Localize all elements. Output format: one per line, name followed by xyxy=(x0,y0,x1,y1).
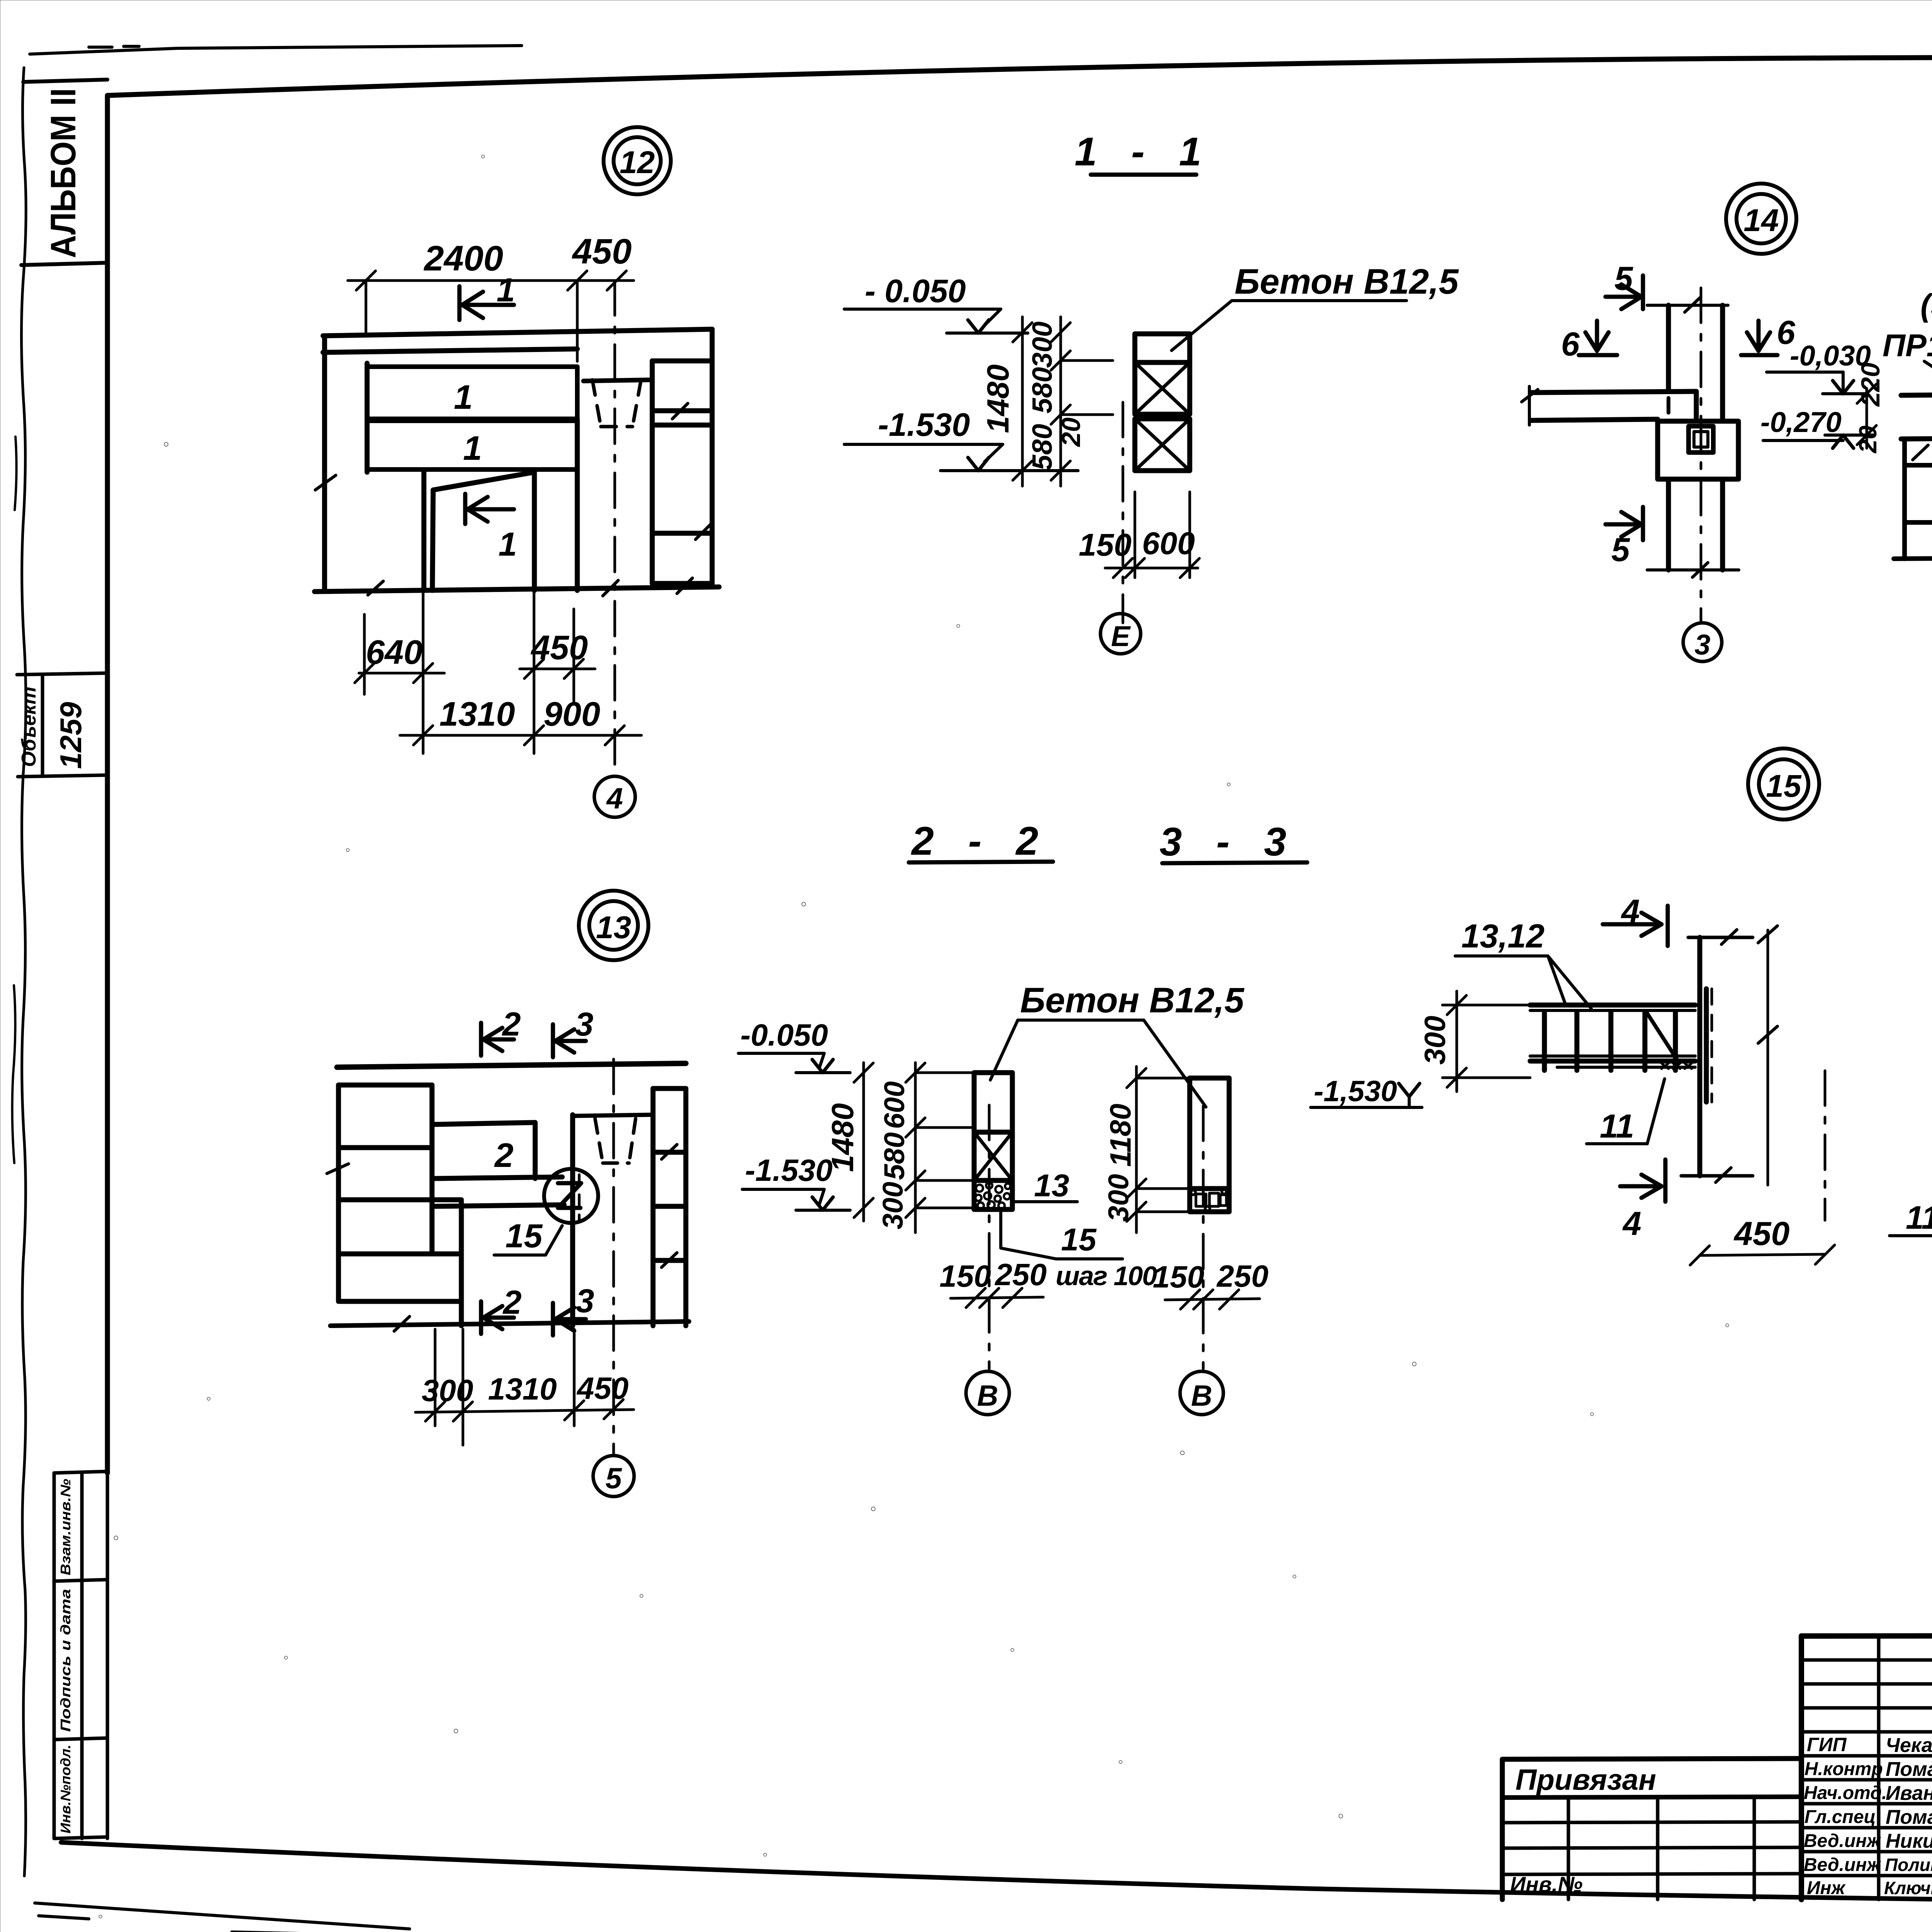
axis circle 5 xyxy=(593,1456,634,1497)
sec55 floor slab xyxy=(1901,393,1932,439)
svg-text:-1.530: -1.530 xyxy=(878,406,970,443)
axis line E xyxy=(1122,402,1124,623)
section arrow 3 bottom xyxy=(553,1282,594,1335)
svg-text:11: 11 xyxy=(1906,1199,1932,1236)
dimension 1180 300 sec33 xyxy=(1102,1066,1190,1233)
svg-text:Е: Е xyxy=(1111,620,1131,652)
node13 left blocks xyxy=(338,1085,461,1326)
svg-text:Помазов: Помазов xyxy=(1886,1758,1932,1781)
node13 right blocks xyxy=(653,1088,686,1326)
svg-text:580: 580 xyxy=(878,1132,910,1180)
level mark -1.530 sec11 xyxy=(844,406,1078,471)
svg-text:Бетон В12,5: Бетон В12,5 xyxy=(1020,981,1245,1020)
concrete label sec11 xyxy=(1172,262,1459,350)
svg-text:-1.530: -1.530 xyxy=(745,1153,833,1187)
svg-text:13: 13 xyxy=(596,910,631,945)
axis circle B2 xyxy=(1180,1371,1223,1415)
svg-text:шаг 100: шаг 100 xyxy=(1056,1261,1157,1291)
section arrow 5 top xyxy=(1605,260,1643,309)
album box top line xyxy=(23,80,107,82)
svg-text:В: В xyxy=(977,1379,998,1412)
svg-text:450: 450 xyxy=(1733,1215,1790,1252)
axis circle 3 node14 xyxy=(1683,623,1722,662)
svg-text:12: 12 xyxy=(619,145,655,180)
label PR1 sec55 xyxy=(1883,328,1932,404)
svg-text:1: 1 xyxy=(498,526,517,563)
frame bottom line xyxy=(61,1842,1932,1905)
svg-text:1180: 1180 xyxy=(1104,1104,1137,1167)
section arrow 5 bottom xyxy=(1605,507,1643,568)
dimension 150 250 sec22 xyxy=(939,1257,1046,1308)
svg-text:В: В xyxy=(1191,1379,1213,1412)
axis line node14 xyxy=(1700,288,1702,623)
svg-text:600: 600 xyxy=(1142,526,1195,561)
svg-text:Нач.отд.: Нач.отд. xyxy=(1804,1783,1887,1803)
svg-text:-0,270: -0,270 xyxy=(1760,406,1842,438)
svg-text:1480: 1480 xyxy=(981,364,1015,433)
svg-text:580: 580 xyxy=(1027,367,1058,413)
socket top line xyxy=(583,380,652,381)
section arrow 2 top xyxy=(481,1006,521,1056)
axis line E4 xyxy=(614,281,616,776)
level mark -0.050 sec11 xyxy=(844,273,1028,333)
node13 bottom line xyxy=(330,1321,689,1326)
svg-text:250: 250 xyxy=(1216,1259,1268,1293)
svg-text:4: 4 xyxy=(1622,1205,1641,1242)
svg-text:300: 300 xyxy=(877,1182,909,1229)
svg-text:3: 3 xyxy=(575,1006,594,1043)
axis line node15 xyxy=(1824,1071,1827,1220)
axis circle B1 xyxy=(966,1371,1009,1415)
dimension 640 xyxy=(355,590,444,753)
label 11 sec44 xyxy=(1889,1108,1932,1236)
svg-text:11: 11 xyxy=(1600,1108,1634,1145)
section title 2-2 xyxy=(909,819,1053,864)
dimension 1310 900 xyxy=(400,695,641,745)
node14 beam from left xyxy=(1531,391,1696,420)
rubble hatch sec33 xyxy=(1191,1189,1226,1211)
svg-text:1259: 1259 xyxy=(54,702,88,769)
svg-text:Инж: Инж xyxy=(1807,1878,1846,1898)
dimension 300 1310 450 xyxy=(415,1371,634,1421)
node15 plate on wall xyxy=(1706,989,1712,1102)
svg-text:Объект: Объект xyxy=(18,687,40,767)
cage diagonal xyxy=(1646,1012,1677,1060)
svg-text:1310: 1310 xyxy=(488,1372,557,1406)
svg-text:220: 220 xyxy=(1856,362,1885,407)
svg-text:300: 300 xyxy=(1419,1016,1452,1065)
node15 far extension line xyxy=(1758,926,1777,1185)
column stack sec11 xyxy=(1135,334,1190,471)
privyazan table xyxy=(1502,1759,1801,1900)
dimension 1480 vertical xyxy=(981,317,1032,486)
node14 wall bottom break xyxy=(1692,563,1708,577)
node13 beam 2 block xyxy=(434,1122,535,1179)
svg-text:1: 1 xyxy=(454,378,473,416)
dimension 300 580 580 20 vertical xyxy=(1027,317,1113,486)
svg-text:Вед.инж: Вед.инж xyxy=(1804,1855,1881,1875)
dimension 450 lower xyxy=(520,590,595,753)
svg-text:Привязан: Привязан xyxy=(1515,1764,1656,1796)
svg-text:15: 15 xyxy=(1061,1222,1097,1257)
svg-text:Подпись и дата: Подпись и дата xyxy=(58,1589,73,1732)
node marker 15 xyxy=(1748,748,1819,820)
svg-text:ПР1: ПР1 xyxy=(1883,328,1932,363)
right blocks break marks xyxy=(672,403,711,539)
svg-text:1310: 1310 xyxy=(439,695,515,733)
svg-text:Никитина: Никитина xyxy=(1886,1830,1932,1852)
cage bars xyxy=(1544,1012,1675,1070)
svg-text:900: 900 xyxy=(544,695,600,733)
svg-text:450: 450 xyxy=(576,1371,628,1405)
svg-text:Иванов: Иванов xyxy=(1886,1782,1932,1804)
frame left line xyxy=(105,95,110,1473)
level mark -0.030 node14 xyxy=(1767,340,1871,394)
svg-text:150: 150 xyxy=(1153,1260,1204,1294)
node14 wall top break xyxy=(1685,298,1700,312)
dimension 150 250 sec33 xyxy=(1153,1259,1268,1309)
node14 embedded square xyxy=(1689,426,1713,452)
dimension 450 node15 xyxy=(1690,1215,1835,1265)
node13 dim extensions xyxy=(435,1329,574,1445)
section arrow 6 right xyxy=(1741,314,1796,355)
plan break marks xyxy=(315,475,692,596)
level -1.530 node15 xyxy=(1311,1075,1422,1108)
section arrow 1 bottom xyxy=(465,494,517,563)
dimension 1480 sec22 xyxy=(825,1063,873,1221)
column sec33 xyxy=(1190,1078,1229,1212)
beam left break xyxy=(1522,386,1538,425)
foundation block 1 upper xyxy=(367,367,577,419)
sec55 foundation left xyxy=(1905,439,1932,559)
node13 left break xyxy=(327,1164,349,1173)
cage weld marks xyxy=(1662,1063,1692,1069)
stamp column cells xyxy=(54,1471,107,1838)
label 13,12 xyxy=(1455,918,1591,1009)
signature column titles xyxy=(1804,1734,1887,1898)
plan node 12 outline xyxy=(315,329,719,592)
section arrow 4 bottom xyxy=(1620,1160,1665,1242)
section arrow 6 left xyxy=(1561,321,1617,363)
svg-text:15: 15 xyxy=(505,1218,543,1255)
label 15 node13 xyxy=(494,1218,562,1255)
svg-text:1: 1 xyxy=(463,429,482,467)
frame top line xyxy=(107,58,1932,95)
svg-text:5: 5 xyxy=(605,1462,622,1495)
section title 3-3 xyxy=(1160,820,1307,864)
node13 top wall line xyxy=(337,1063,686,1067)
svg-text:Бетон В12,5: Бетон В12,5 xyxy=(1235,262,1459,301)
section title 1-1 xyxy=(1075,129,1213,175)
svg-text:Взам.инв.№: Взам.инв.№ xyxy=(58,1479,73,1575)
svg-text:300: 300 xyxy=(1102,1174,1134,1221)
svg-text:2: 2 xyxy=(494,1136,514,1174)
svg-text:600: 600 xyxy=(878,1081,910,1129)
axis line node13 xyxy=(612,1059,615,1455)
svg-text:150: 150 xyxy=(939,1259,991,1293)
paper bottom-left wavy lines xyxy=(35,1903,410,1932)
axis circle 4 xyxy=(594,776,635,817)
node15 right wall xyxy=(1681,937,1753,1176)
svg-text:2: 2 xyxy=(502,1284,522,1321)
axis circle E xyxy=(1100,614,1141,654)
svg-text:250: 250 xyxy=(994,1257,1046,1292)
section arrow 4 top xyxy=(1603,893,1668,946)
node marker 12 xyxy=(604,127,671,194)
svg-text:14: 14 xyxy=(1743,203,1779,238)
concrete label 22 33 xyxy=(990,981,1245,1107)
node13 right breaks xyxy=(662,1145,677,1267)
svg-text:Инв.№: Инв.№ xyxy=(1510,1872,1583,1896)
svg-text:Ключникова: Ключникова xyxy=(1884,1878,1932,1898)
svg-text:2 - 2: 2 - 2 xyxy=(911,819,1050,864)
label 15 shag100 sec22 xyxy=(1001,1210,1157,1291)
node15 wall breaks xyxy=(1716,930,1737,1182)
svg-text:450: 450 xyxy=(531,628,588,667)
dimension 150 600 xyxy=(1079,492,1199,578)
dimension 220 20 node14 xyxy=(1854,362,1885,453)
node14 column block xyxy=(1658,421,1738,479)
node13 joint detail circle xyxy=(544,1169,598,1223)
surnames column xyxy=(1884,1734,1932,1898)
level mark -0.270 node14 xyxy=(1760,406,1874,448)
svg-text:Вед.инж: Вед.инж xyxy=(1804,1831,1881,1851)
svg-text:Чекалов: Чекалов xyxy=(1886,1734,1932,1757)
svg-text:-0.050: -0.050 xyxy=(740,1018,828,1052)
svg-text:150: 150 xyxy=(1079,527,1132,563)
svg-text:300: 300 xyxy=(422,1373,473,1408)
node marker 13 xyxy=(579,891,648,960)
node13 bottom break xyxy=(394,1316,410,1331)
svg-text:- 0.050: - 0.050 xyxy=(865,273,966,309)
section arrow 2 bottom xyxy=(481,1284,522,1334)
node14 wall top xyxy=(1647,305,1728,421)
object box xyxy=(17,673,107,777)
svg-text:2: 2 xyxy=(502,1006,521,1043)
svg-text:1480: 1480 xyxy=(825,1103,860,1172)
right foundation blocks xyxy=(652,329,712,583)
paper left edge wavy line xyxy=(21,68,26,1876)
label 11 node15 xyxy=(1587,1079,1665,1145)
label 13 sec22 xyxy=(1013,1168,1077,1203)
svg-text:450: 450 xyxy=(571,232,632,271)
column sec22 xyxy=(974,1073,1012,1209)
node14 wall bottom xyxy=(1647,479,1739,570)
level -0.050 sec22 xyxy=(738,1018,850,1073)
axis line B2 xyxy=(1202,1106,1205,1369)
svg-text:4: 4 xyxy=(606,782,623,815)
svg-text:1 - 1: 1 - 1 xyxy=(1075,129,1213,174)
dimension (370) 250 170 xyxy=(1920,288,1932,395)
axis line B1 xyxy=(988,1105,991,1369)
title block central table grid xyxy=(1801,1635,1932,1903)
svg-text:ГИП: ГИП xyxy=(1807,1734,1847,1755)
cage rails xyxy=(1530,1005,1695,1067)
svg-text:2400: 2400 xyxy=(423,239,503,278)
sec55 bottom line xyxy=(1894,557,1932,559)
dimension 2400 450 xyxy=(348,232,634,361)
svg-text:Поликарпов: Поликарпов xyxy=(1885,1855,1932,1875)
level -1.530 sec22 xyxy=(742,1153,850,1210)
svg-text:Гл.спец: Гл.спец xyxy=(1804,1807,1876,1827)
svg-text:15: 15 xyxy=(1766,769,1802,804)
sec55 left break xyxy=(1913,445,1928,460)
svg-text:6: 6 xyxy=(1561,326,1580,363)
node13 socket dashed xyxy=(595,1119,636,1163)
svg-text:Н.контр: Н.контр xyxy=(1804,1759,1883,1779)
paper top-left tick marks xyxy=(89,46,139,47)
svg-text:Инв.№подл.: Инв.№подл. xyxy=(58,1745,73,1833)
svg-text:20: 20 xyxy=(1056,417,1086,447)
svg-text:580: 580 xyxy=(1027,424,1058,470)
rubble hatch sec22 xyxy=(975,1182,1010,1209)
svg-text:300: 300 xyxy=(1027,321,1058,368)
node marker 14 xyxy=(1726,184,1796,254)
album box bottom line xyxy=(21,263,107,265)
svg-text:-1,530: -1,530 xyxy=(1314,1075,1397,1108)
wall below opening xyxy=(424,419,577,590)
svg-text:20: 20 xyxy=(1854,425,1882,453)
svg-text:13,12: 13,12 xyxy=(1461,918,1544,955)
svg-text:3 - 3: 3 - 3 xyxy=(1160,820,1298,864)
dimension 300 node15 xyxy=(1419,991,1530,1092)
paper top edge line xyxy=(30,46,522,54)
svg-text:13: 13 xyxy=(1034,1168,1069,1203)
foundation block 1 lower xyxy=(367,421,577,469)
svg-text:(370) 250 170: (370) 250 170 xyxy=(1920,288,1932,323)
section arrow 3 top xyxy=(553,1006,594,1057)
node13 right wall xyxy=(573,1115,652,1326)
svg-text:АЛЬБОМ II: АЛЬБОМ II xyxy=(44,88,83,258)
svg-text:640: 640 xyxy=(366,633,423,671)
dimension 600 580 300 sec22 xyxy=(877,1063,974,1233)
column socket dashed cup xyxy=(592,380,641,427)
node13 beam band xyxy=(432,1177,564,1206)
svg-text:3: 3 xyxy=(1694,629,1710,661)
svg-text:3: 3 xyxy=(576,1282,594,1320)
section arrow 1 top xyxy=(459,272,515,320)
svg-text:Помазов: Помазов xyxy=(1886,1806,1932,1828)
